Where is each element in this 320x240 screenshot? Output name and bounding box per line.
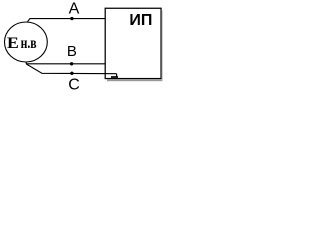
wire A (source top to instrument) <box>28 19 106 22</box>
svg-text:C: C <box>68 77 80 94</box>
background <box>0 0 168 95</box>
wire stub at source bottom <box>25 62 27 64</box>
node A junction dot <box>70 17 73 20</box>
svg-text:B: B <box>67 43 77 60</box>
box shadow bottom <box>107 79 163 81</box>
voltage source E n.v (circle symbol) <box>5 22 48 62</box>
node B junction dot <box>70 62 73 65</box>
box shadow right <box>162 11 163 82</box>
wire B <box>26 63 105 65</box>
svg-text:A: A <box>69 0 80 17</box>
value label Ен.в <box>7 35 37 52</box>
svg-text:ИП: ИП <box>129 12 152 29</box>
wire C (diagonal then horizontal, runs into instrument) <box>26 64 116 74</box>
svg-text:н.в: н.в <box>21 35 37 52</box>
wire C termination step inside box <box>116 74 118 77</box>
instrument box ИП <box>105 8 161 78</box>
svg-text:Е: Е <box>7 35 19 52</box>
node C junction dot <box>70 72 73 75</box>
